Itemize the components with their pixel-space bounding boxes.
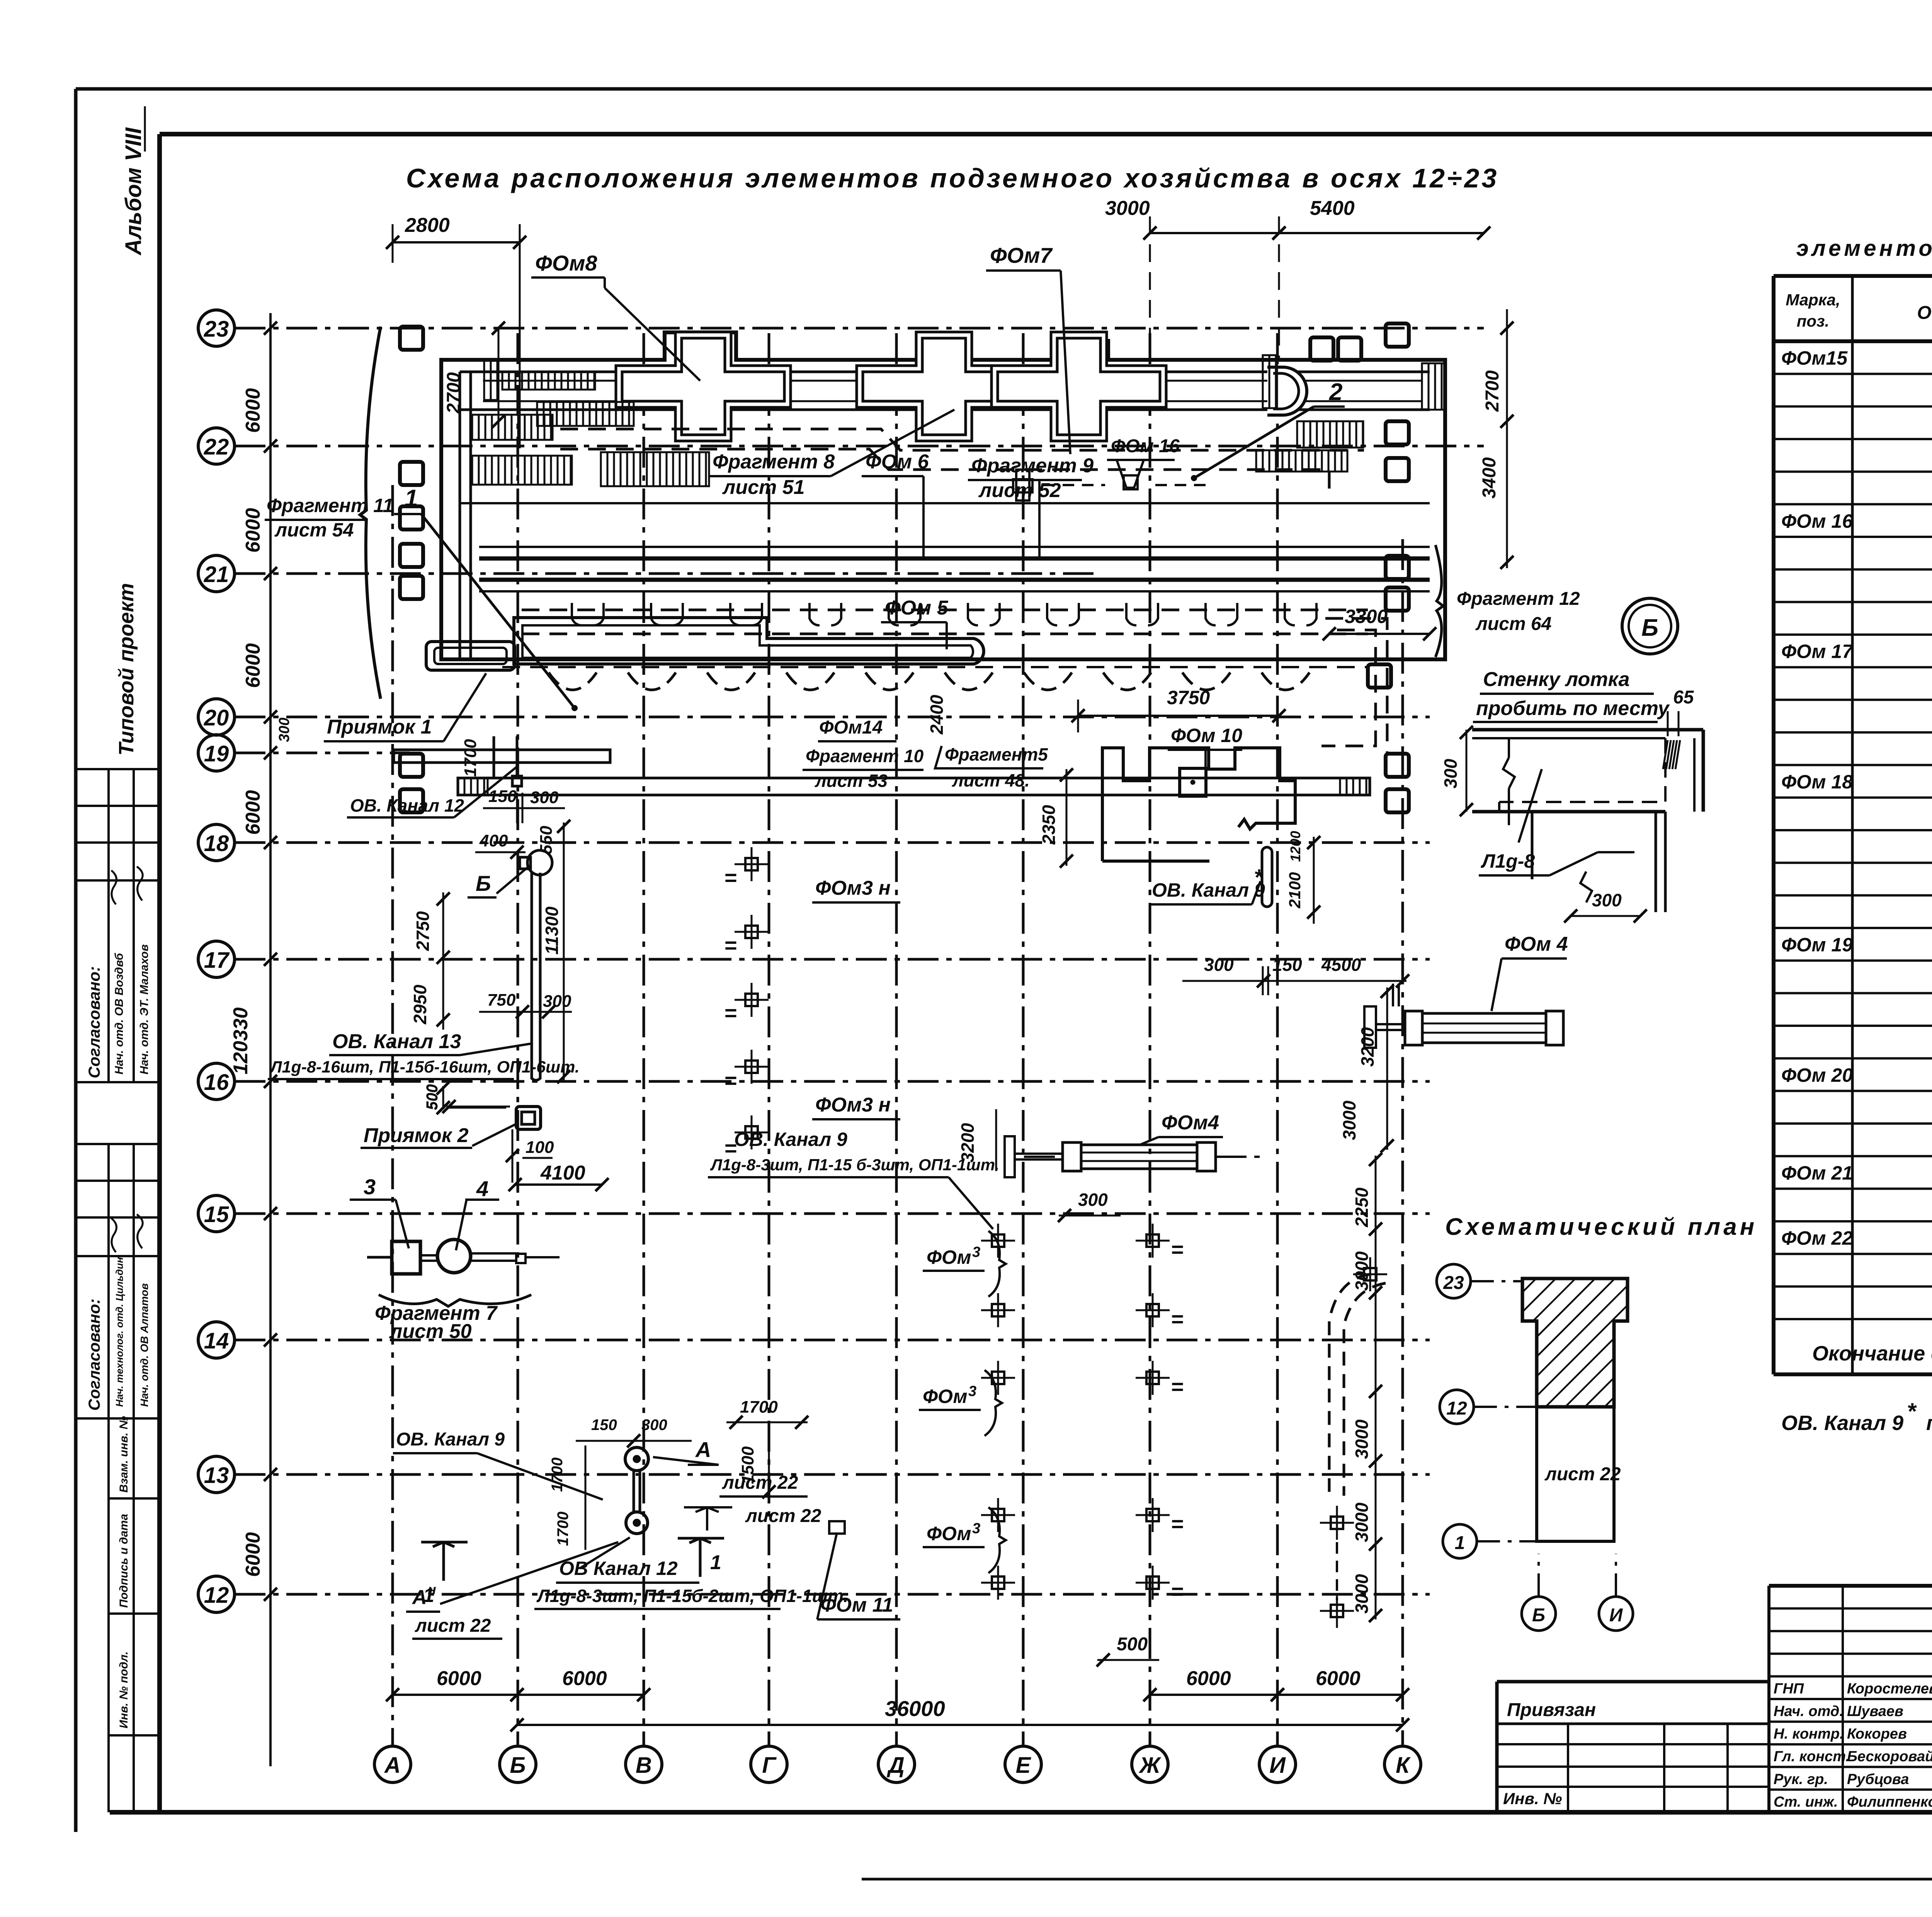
svg-text:3: 3 bbox=[968, 1383, 976, 1399]
svg-text:ФОм 21: ФОм 21 bbox=[1781, 1162, 1853, 1184]
svg-text:1: 1 bbox=[423, 1584, 434, 1607]
svg-text:3200: 3200 bbox=[957, 1123, 978, 1163]
svg-text:ФОм 16: ФОм 16 bbox=[1781, 510, 1853, 532]
axis line Б bbox=[500, 1746, 536, 1783]
svg-text:ФОм: ФОм bbox=[927, 1523, 971, 1544]
svg-text:ОВ Канал 12: ОВ Канал 12 bbox=[559, 1558, 678, 1579]
svg-text:Л1g-8-16шт, П1-15б-16шт, ОП1-6: Л1g-8-16шт, П1-15б-16шт, ОП1-6шт. bbox=[269, 1058, 580, 1076]
svg-text:лист 22: лист 22 bbox=[745, 1506, 821, 1526]
svg-text:4100: 4100 bbox=[540, 1162, 585, 1184]
svg-text:ФОм: ФОм bbox=[927, 1246, 971, 1268]
svg-text:1700: 1700 bbox=[740, 1398, 778, 1416]
svg-text:300: 300 bbox=[1592, 890, 1622, 910]
cross foundation mid (ФОм7) bbox=[857, 332, 1031, 441]
svg-text:36000: 36000 bbox=[885, 1696, 945, 1721]
axis line 12 bbox=[198, 1576, 235, 1612]
svg-text:Нач. отд. ОВ Воздвб: Нач. отд. ОВ Воздвб bbox=[113, 953, 126, 1074]
svg-text:лист 52: лист 52 bbox=[978, 479, 1061, 502]
svg-text:Ж: Ж bbox=[1138, 1753, 1162, 1778]
svg-text:=: = bbox=[724, 933, 737, 957]
svg-text:Н. контр.: Н. контр. bbox=[1774, 1726, 1844, 1742]
svg-text:Согласовано:: Согласовано: bbox=[85, 1299, 103, 1411]
svg-text:6000: 6000 bbox=[562, 1667, 607, 1690]
svg-text:лист 22: лист 22 bbox=[1544, 1464, 1621, 1485]
svg-text:Схематический план: Схематический план bbox=[1445, 1214, 1757, 1240]
inner drawing frame bbox=[160, 132, 1932, 136]
svg-text:Ст. инж.: Ст. инж. bbox=[1774, 1794, 1838, 1810]
axis line 13 bbox=[198, 1456, 235, 1493]
detail Б lower channel bbox=[1531, 812, 1534, 879]
svg-text:6000: 6000 bbox=[1316, 1667, 1361, 1690]
right pipe and ФОм4 cylinder (upper) bbox=[1364, 1006, 1376, 1048]
vertical canal (ОВ.Канал 13) bbox=[531, 873, 533, 1071]
svg-text:12: 12 bbox=[1446, 1398, 1467, 1419]
svg-text:17: 17 bbox=[204, 948, 230, 973]
svg-text:Б: Б bbox=[1641, 615, 1658, 641]
right vertical dimension chain near schematic plan bbox=[1375, 1156, 1377, 1619]
svg-text:ФОм 10: ФОм 10 bbox=[1171, 725, 1242, 746]
svg-text:Инв. №: Инв. № bbox=[1503, 1789, 1562, 1808]
svg-text:6000: 6000 bbox=[242, 643, 264, 688]
svg-text:ФОм 16: ФОм 16 bbox=[1111, 436, 1180, 456]
svg-text:ФОм 4: ФОм 4 bbox=[1505, 933, 1568, 955]
svg-text:120330: 120330 bbox=[230, 1007, 252, 1074]
svg-text:3: 3 bbox=[972, 1244, 980, 1260]
scallop dashes bottom of building bbox=[549, 672, 597, 690]
svg-text:6000: 6000 bbox=[242, 790, 264, 835]
svg-text:5400: 5400 bbox=[1310, 197, 1355, 220]
svg-text:300: 300 bbox=[1440, 759, 1461, 788]
svg-text:А: А bbox=[695, 1437, 711, 1462]
svg-text:23: 23 bbox=[1443, 1273, 1464, 1293]
svg-text:2950: 2950 bbox=[410, 984, 430, 1025]
svg-text:6000: 6000 bbox=[1186, 1667, 1231, 1690]
svg-text:ФОм4: ФОм4 bbox=[1162, 1112, 1219, 1134]
svg-text:поз.: поз. bbox=[1797, 312, 1829, 330]
svg-text:ОВ. Канал 12: ОВ. Канал 12 bbox=[350, 795, 464, 815]
margin approval block 2 bbox=[76, 1143, 160, 1145]
svg-text:Окончание спецификации на: Окончание спецификации на листе 24 bbox=[1812, 1342, 1932, 1365]
lower ФОм4 cylinder bbox=[1063, 1142, 1081, 1171]
axis line 23 bbox=[198, 310, 235, 346]
svg-text:Взам. инв. №: Взам. инв. № bbox=[117, 1416, 130, 1493]
svg-text:=: = bbox=[724, 1001, 737, 1025]
svg-text:150: 150 bbox=[1272, 955, 1302, 975]
svg-text:2250: 2250 bbox=[1352, 1187, 1372, 1227]
svg-text:300: 300 bbox=[1204, 955, 1234, 975]
svg-text:1: 1 bbox=[1455, 1533, 1465, 1553]
svg-text:ФОм 22: ФОм 22 bbox=[1781, 1227, 1853, 1249]
equipment on axis 15: items 3 and 4 bbox=[392, 1241, 420, 1274]
svg-text:Альбом VIII: Альбом VIII bbox=[121, 127, 146, 256]
svg-text:Фрагмент 9: Фрагмент 9 bbox=[971, 455, 1094, 477]
svg-text:лист 53: лист 53 bbox=[815, 771, 888, 791]
svg-text:=: = bbox=[724, 865, 737, 890]
svg-text:Обозначение: Обозначение bbox=[1917, 303, 1932, 323]
svg-text:ФОм7: ФОм7 bbox=[990, 243, 1053, 267]
svg-text:3000: 3000 bbox=[1352, 1502, 1372, 1542]
svg-text:6000: 6000 bbox=[242, 508, 264, 553]
svg-text:Приямок 1: Приямок 1 bbox=[327, 716, 432, 738]
axis line 17 bbox=[198, 941, 235, 977]
vertical lens ОВ Канал 9* bbox=[1262, 847, 1272, 907]
svg-text:Согласовано:: Согласовано: bbox=[85, 966, 103, 1078]
svg-text:100: 100 bbox=[526, 1138, 554, 1157]
svg-text:Рук. гр.: Рук. гр. bbox=[1774, 1771, 1828, 1788]
svg-text:23: 23 bbox=[204, 317, 229, 342]
svg-text:Инв. № подл.: Инв. № подл. bbox=[117, 1651, 130, 1728]
svg-text:ФОм 19: ФОм 19 bbox=[1781, 934, 1853, 956]
svg-text:12: 12 bbox=[204, 1583, 229, 1608]
svg-text:6000: 6000 bbox=[437, 1667, 481, 1690]
svg-text:18: 18 bbox=[204, 831, 229, 856]
svg-text:300: 300 bbox=[1078, 1190, 1108, 1210]
detail Б section drawing bbox=[1472, 728, 1703, 732]
svg-text:1700: 1700 bbox=[549, 1457, 566, 1492]
svg-text:ФОм 6: ФОм 6 bbox=[866, 451, 929, 473]
svg-text:Д: Д bbox=[886, 1753, 905, 1778]
small squares columns (column footprints) bbox=[400, 327, 423, 350]
rounded cap right end of band bbox=[1267, 367, 1307, 415]
svg-text:ОВ. Канал 9: ОВ. Канал 9 bbox=[734, 1129, 847, 1150]
mini plan axis circles bbox=[1437, 1264, 1471, 1298]
svg-text:ФОм: ФОм bbox=[923, 1386, 968, 1407]
svg-text:ФОм 20: ФОм 20 bbox=[1781, 1064, 1853, 1086]
svg-text:Фрагмент5: Фрагмент5 bbox=[945, 744, 1048, 764]
bar above canal bbox=[394, 750, 610, 763]
margin approval block 1 bbox=[76, 768, 160, 770]
svg-text:3300: 3300 bbox=[1345, 606, 1388, 627]
svg-text:Нач. отд. ЭТ. Малахов: Нач. отд. ЭТ. Малахов bbox=[138, 944, 151, 1074]
svg-text:Бескоровайный: Бескоровайный bbox=[1847, 1748, 1932, 1765]
circle marker Б at canal top bbox=[527, 850, 552, 875]
dim 5400 top bbox=[1279, 232, 1484, 234]
small apparatus near ФОм16 bbox=[1016, 470, 1029, 501]
svg-text:4: 4 bbox=[476, 1176, 488, 1201]
label Фрагмент 12 / лист 64 + bracket bbox=[1435, 545, 1443, 657]
svg-text:Фрагмент 12: Фрагмент 12 bbox=[1457, 589, 1580, 609]
heavy double lines mid band bbox=[479, 557, 1430, 561]
svg-text:150: 150 bbox=[591, 1416, 617, 1433]
svg-text:300: 300 bbox=[543, 992, 571, 1011]
svg-text:3: 3 bbox=[364, 1175, 376, 1199]
axis line Е bbox=[1005, 1746, 1041, 1783]
axis line В bbox=[626, 1746, 662, 1783]
svg-text:3750: 3750 bbox=[1167, 687, 1210, 708]
svg-text:после прокладки труб засыпа: после прокладки труб засыпать песком. bbox=[1926, 1411, 1932, 1435]
marker column x=1930 between axes 18-16 bbox=[745, 858, 758, 870]
axis line К bbox=[1384, 1746, 1421, 1783]
axis line 14 bbox=[198, 1322, 235, 1358]
svg-text:=: = bbox=[724, 1068, 737, 1093]
svg-text:Фрагмент 10: Фрагмент 10 bbox=[806, 746, 924, 766]
svg-text:Б: Б bbox=[476, 871, 491, 896]
svg-text:пробить по месту: пробить по месту bbox=[1476, 697, 1670, 720]
svg-text:ОВ. Канал 9: ОВ. Канал 9 bbox=[396, 1429, 505, 1450]
svg-text:3200: 3200 bbox=[1357, 1027, 1378, 1067]
chain symbol bbox=[625, 1447, 648, 1471]
privyazan block bbox=[1497, 1680, 1769, 1684]
building outer contour bbox=[441, 332, 1445, 659]
dashed corner run bottom right bbox=[1329, 1274, 1370, 1492]
svg-text:лист 48.: лист 48. bbox=[952, 770, 1030, 790]
svg-text:К: К bbox=[1396, 1753, 1411, 1778]
svg-text:Фрагмент 11: Фрагмент 11 bbox=[267, 495, 393, 516]
sheet outer border bbox=[76, 87, 1932, 91]
clip symbols row (JL shapes) bbox=[572, 603, 582, 625]
pit Приямок 2 bbox=[516, 1107, 541, 1129]
svg-text:Г: Г bbox=[762, 1753, 777, 1778]
svg-text:20: 20 bbox=[204, 705, 229, 730]
svg-text:750: 750 bbox=[487, 991, 516, 1010]
svg-text:500: 500 bbox=[1117, 1634, 1148, 1655]
axis line 16 bbox=[198, 1063, 235, 1100]
svg-text:лист 64: лист 64 bbox=[1475, 614, 1551, 634]
svg-text:2100: 2100 bbox=[1286, 872, 1304, 909]
svg-text:=: = bbox=[1171, 1512, 1184, 1536]
margin stamp cells bottom bbox=[109, 1497, 160, 1500]
axis line 22 bbox=[198, 428, 235, 464]
dim 3750 bbox=[1078, 715, 1279, 717]
svg-text:Кокорев: Кокорев bbox=[1847, 1726, 1907, 1742]
svg-text:Марка,: Марка, bbox=[1786, 291, 1840, 309]
small tick bar left of canal bbox=[493, 736, 495, 778]
svg-text:2: 2 bbox=[1329, 379, 1342, 405]
svg-text:*: * bbox=[1907, 1398, 1917, 1424]
svg-text:3000: 3000 bbox=[1352, 1419, 1372, 1459]
axis line 21 bbox=[198, 555, 235, 592]
svg-text:19: 19 bbox=[204, 741, 229, 766]
marker grid lower (ФОм3 rows) bbox=[992, 1234, 1004, 1247]
svg-text:1: 1 bbox=[710, 1551, 721, 1574]
detail Б circle bbox=[1622, 598, 1678, 654]
svg-text:13: 13 bbox=[204, 1463, 229, 1488]
hatched comb bars bbox=[472, 415, 553, 440]
svg-text:6000: 6000 bbox=[242, 388, 264, 433]
svg-text:300: 300 bbox=[530, 788, 559, 807]
svg-text:2800: 2800 bbox=[405, 214, 450, 237]
svg-text:Приямок 2: Приямок 2 bbox=[364, 1124, 469, 1147]
axis line 18 bbox=[198, 824, 235, 861]
axis line 20 bbox=[198, 699, 235, 735]
dim line 11300 bbox=[563, 822, 565, 1080]
axis line Ж bbox=[1132, 1746, 1168, 1783]
svg-text:ФОм3 н: ФОм3 н bbox=[815, 877, 891, 899]
svg-text:Филиппенко: Филиппенко bbox=[1847, 1794, 1932, 1810]
svg-text:Фрагмент 8: Фрагмент 8 bbox=[713, 451, 835, 473]
axis line 19 bbox=[198, 735, 235, 771]
axis line Г bbox=[751, 1746, 787, 1783]
svg-text:65: 65 bbox=[1673, 687, 1694, 708]
cross foundation right bbox=[992, 332, 1166, 441]
dim 3000 top bbox=[1150, 232, 1279, 234]
svg-text:Е: Е bbox=[1016, 1753, 1032, 1778]
ФОм5 foundation bar bbox=[514, 618, 984, 664]
svg-text:Л1g-8: Л1g-8 bbox=[1481, 850, 1535, 872]
svg-text:ФОм8: ФОм8 bbox=[535, 251, 597, 275]
vertical dims 2750 2950 bbox=[442, 892, 444, 1030]
svg-text:=: = bbox=[1171, 1307, 1184, 1331]
svg-text:Б: Б bbox=[1532, 1605, 1545, 1626]
svg-text:15: 15 bbox=[204, 1202, 229, 1227]
svg-text:Коростелев: Коростелев bbox=[1847, 1680, 1932, 1697]
svg-text:ОВ. Канал 13: ОВ. Канал 13 bbox=[332, 1030, 461, 1053]
svg-text:Нач. технолог. отд. Цильдин: Нач. технолог. отд. Цильдин bbox=[114, 1257, 125, 1407]
svg-text:500: 500 bbox=[424, 1084, 441, 1110]
svg-text:21: 21 bbox=[204, 562, 229, 587]
svg-text:ФОм14: ФОм14 bbox=[819, 717, 883, 738]
svg-text:Б: Б bbox=[510, 1753, 526, 1778]
svg-text:ОВ. Канал 9: ОВ. Канал 9 bbox=[1781, 1411, 1903, 1435]
svg-text:3000: 3000 bbox=[1105, 197, 1150, 220]
svg-text:550: 550 bbox=[537, 826, 556, 854]
dashed loop right side of building bbox=[1321, 630, 1376, 746]
svg-text:3000: 3000 bbox=[1339, 1100, 1359, 1140]
dashed utility runs upper bbox=[560, 429, 1364, 450]
spec table rows bbox=[1774, 373, 1932, 375]
svg-text:Схема расположения элементов: Схема расположения элементов подземного … bbox=[406, 163, 1499, 193]
svg-text:=: = bbox=[1171, 1579, 1184, 1604]
svg-text:2700: 2700 bbox=[1482, 370, 1503, 412]
svg-text:лист 54: лист 54 bbox=[274, 519, 354, 541]
svg-text:Стенку лотка: Стенку лотка bbox=[1483, 668, 1629, 691]
svg-text:Нач. отд.: Нач. отд. bbox=[1774, 1703, 1844, 1720]
cross foundation left (ФОм8) bbox=[616, 332, 791, 441]
svg-text:3: 3 bbox=[972, 1520, 980, 1537]
svg-text:Рубцова: Рубцова bbox=[1847, 1771, 1909, 1788]
svg-text:А: А bbox=[384, 1753, 401, 1778]
axis line А bbox=[374, 1746, 411, 1783]
stepped outline Фрагмент 5 object bbox=[1102, 748, 1295, 861]
svg-text:лист 22: лист 22 bbox=[415, 1616, 491, 1636]
dim 2700 + 3400 right bbox=[1506, 309, 1508, 568]
building inner top band bbox=[460, 371, 1430, 373]
svg-text:300: 300 bbox=[641, 1416, 667, 1433]
spec table grid bbox=[1774, 274, 1932, 278]
svg-text:Шуваев: Шуваев bbox=[1847, 1703, 1903, 1720]
svg-text:Нач. отд. ОВ Алпатов: Нач. отд. ОВ Алпатов bbox=[138, 1283, 150, 1407]
svg-text:2350: 2350 bbox=[1039, 805, 1059, 845]
svg-text:300: 300 bbox=[276, 718, 293, 742]
dim 2800 top bbox=[393, 241, 520, 243]
svg-text:1700: 1700 bbox=[554, 1512, 571, 1546]
svg-text:И: И bbox=[1609, 1605, 1623, 1626]
svg-text:И: И bbox=[1269, 1753, 1286, 1778]
svg-text:ФОм 17: ФОм 17 bbox=[1781, 641, 1854, 662]
svg-text:=: = bbox=[1171, 1374, 1184, 1399]
svg-text:400: 400 bbox=[479, 831, 508, 850]
svg-text:ОВ. Канал 9: ОВ. Канал 9 bbox=[1152, 879, 1265, 901]
svg-text:16: 16 bbox=[204, 1070, 229, 1095]
svg-text:3400: 3400 bbox=[1479, 457, 1500, 499]
svg-text:лист 50: лист 50 bbox=[389, 1320, 472, 1343]
svg-text:4500: 4500 bbox=[1321, 955, 1361, 975]
svg-text:ГНП: ГНП bbox=[1774, 1680, 1804, 1697]
svg-text:Л1g-8-3шт, П1-15 б-3шт, ОП1-1ш: Л1g-8-3шт, П1-15 б-3шт, ОП1-1шт. bbox=[710, 1156, 999, 1174]
signature block bbox=[1767, 1586, 1770, 1812]
svg-text:ФОм 11: ФОм 11 bbox=[820, 1594, 893, 1616]
svg-text:элементов подземного хозяйст: элементов подземного хозяйства (продолже… bbox=[1796, 236, 1932, 261]
svg-text:11300: 11300 bbox=[542, 906, 562, 955]
svg-text:1: 1 bbox=[405, 485, 418, 512]
svg-text:лист 51: лист 51 bbox=[722, 476, 805, 499]
svg-text:1200: 1200 bbox=[1287, 831, 1303, 862]
section arrows 1 bbox=[421, 1542, 468, 1581]
svg-text:3000: 3000 bbox=[1352, 1574, 1372, 1614]
pit Приямок 1 rounded rect bbox=[426, 642, 515, 670]
svg-text:Подпись и дата: Подпись и дата bbox=[117, 1514, 130, 1608]
axis line 15 bbox=[198, 1195, 235, 1232]
svg-text:Л1g-8-3шт, П1-15б-2шт, ОП1-1шт: Л1g-8-3шт, П1-15б-2шт, ОП1-1шт. bbox=[536, 1586, 848, 1606]
svg-text:150: 150 bbox=[488, 787, 517, 806]
left vertical dimension chain bbox=[269, 313, 272, 1766]
fragment bracket left (Фрагмент 11) bbox=[360, 327, 381, 699]
svg-text:2750: 2750 bbox=[413, 911, 433, 951]
svg-text:лист 22: лист 22 bbox=[722, 1473, 798, 1493]
svg-text:14: 14 bbox=[204, 1328, 229, 1353]
svg-text:Гл. конст.: Гл. конст. bbox=[1774, 1748, 1850, 1765]
svg-text:3000: 3000 bbox=[1352, 1251, 1372, 1291]
svg-text:2400: 2400 bbox=[927, 695, 947, 735]
svg-text:ФОм 18: ФОм 18 bbox=[1781, 771, 1853, 793]
label Фрагмент 7 / лист 50 bbox=[379, 1295, 531, 1306]
axis line И bbox=[1259, 1746, 1296, 1783]
svg-text:Типовой проект: Типовой проект bbox=[115, 583, 138, 756]
svg-text:6000: 6000 bbox=[242, 1532, 264, 1577]
svg-text:ФОм 5: ФОм 5 bbox=[885, 597, 949, 619]
svg-text:ФОм3 н: ФОм3 н bbox=[815, 1094, 891, 1116]
svg-text:1700: 1700 bbox=[461, 739, 480, 777]
dim 3300 bbox=[1329, 633, 1430, 635]
svg-text:Привязан: Привязан bbox=[1507, 1700, 1596, 1720]
spec table footer row bbox=[1774, 1372, 1932, 1376]
axis line Д bbox=[878, 1746, 915, 1783]
long foundation bar y=2035 bbox=[458, 778, 1370, 795]
svg-text:22: 22 bbox=[204, 434, 229, 460]
svg-text:В: В bbox=[636, 1753, 652, 1778]
svg-text:=: = bbox=[1171, 1237, 1184, 1262]
svg-text:ФОм15: ФОм15 bbox=[1781, 347, 1848, 369]
bottom dimension chain bbox=[393, 1694, 517, 1696]
